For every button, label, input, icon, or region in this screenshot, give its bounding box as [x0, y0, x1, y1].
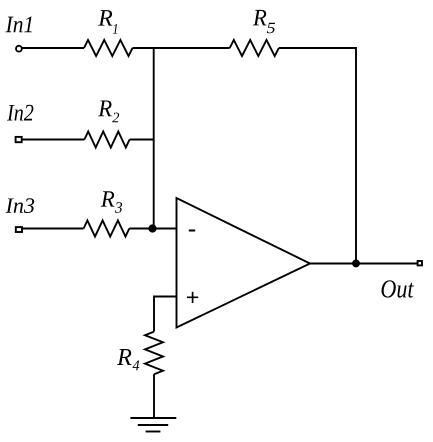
resistor R3: [84, 221, 130, 237]
wire R4 to ground: [153, 374, 155, 418]
resistor R1: [84, 40, 133, 56]
wire R2 to bus: [130, 139, 154, 141]
label R3: [101, 191, 115, 206]
wire R3 to op-amp inverting input: [129, 228, 176, 230]
wire R5 to right corner and feedback vertical: [279, 48, 356, 264]
wire In2 to R2: [22, 139, 84, 141]
op-amp minus pin label: [189, 230, 195, 232]
label In2: [7, 105, 33, 121]
terminal In1: [16, 46, 22, 52]
label R4: [117, 349, 132, 365]
wire bus vertical: [153, 48, 155, 229]
wire In3 to R3: [23, 228, 84, 230]
op-amp U1: [177, 198, 311, 328]
terminal Out: [418, 261, 422, 265]
label In3: [5, 198, 34, 213]
wire op-amp plus input: [154, 297, 177, 332]
terminal In3: [16, 227, 22, 232]
label R1: [98, 10, 112, 26]
ground: [130, 417, 176, 419]
wire In1 to R1: [22, 47, 85, 49]
op-amp plus pin label: [187, 292, 198, 303]
label Out: [382, 280, 414, 297]
resistor R5: [230, 40, 279, 56]
label R5: [253, 10, 267, 26]
node inverting input junction: [149, 225, 155, 231]
wire R1 to R5: [133, 47, 230, 49]
terminal In2: [16, 137, 22, 142]
resistor R2: [84, 132, 129, 148]
node output junction: [353, 260, 359, 266]
wire op-amp output: [310, 263, 418, 265]
label In1: [6, 17, 32, 33]
label R2: [98, 101, 112, 117]
resistor R4: [145, 332, 163, 375]
